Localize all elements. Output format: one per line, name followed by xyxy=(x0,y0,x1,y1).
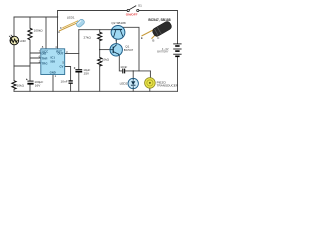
svg-text:8: 8 xyxy=(42,45,44,49)
svg-text:S1: S1 xyxy=(138,3,142,7)
svg-text:10nF: 10nF xyxy=(61,79,68,83)
svg-text:100kΩ: 100kΩ xyxy=(34,29,44,33)
svg-text:10kΩ: 10kΩ xyxy=(102,57,110,61)
svg-text:16V: 16V xyxy=(35,84,41,88)
svg-text:10kΩ: 10kΩ xyxy=(17,84,25,88)
svg-text:LED1: LED1 xyxy=(67,16,75,20)
svg-text:Q2 SB188: Q2 SB188 xyxy=(111,21,126,25)
svg-text:B: B xyxy=(152,39,154,43)
svg-text:10nF: 10nF xyxy=(120,65,127,69)
svg-text:BC547: BC547 xyxy=(124,48,134,52)
svg-text:ON/OFF: ON/OFF xyxy=(126,13,138,17)
svg-text:TRG: TRG xyxy=(42,61,48,65)
svg-text:4: 4 xyxy=(55,45,57,49)
svg-text:LDR: LDR xyxy=(20,39,27,43)
svg-text:TRANSDUCER: TRANSDUCER xyxy=(157,84,179,88)
svg-text:555: 555 xyxy=(50,59,55,63)
svg-text:BATTERY: BATTERY xyxy=(157,51,169,54)
svg-text:THR: THR xyxy=(42,56,48,60)
svg-text:CV: CV xyxy=(60,64,64,68)
svg-text:25V: 25V xyxy=(84,72,90,76)
svg-text:E: E xyxy=(141,36,143,40)
svg-text:BC547, SB188: BC547, SB188 xyxy=(148,18,170,22)
svg-text:OUT: OUT xyxy=(57,51,63,55)
svg-text:27kΩ: 27kΩ xyxy=(83,35,91,39)
svg-text:DIS: DIS xyxy=(42,51,47,55)
svg-text:LED2: LED2 xyxy=(120,82,128,86)
svg-text:C: C xyxy=(157,36,160,40)
